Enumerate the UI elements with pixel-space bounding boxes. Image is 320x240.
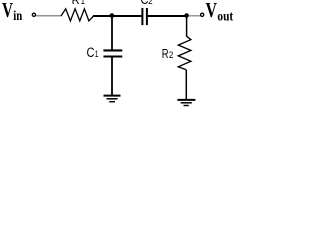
label C1 xyxy=(87,45,99,60)
capacitor C1 xyxy=(103,50,122,56)
wire R2 to ground xyxy=(185,70,187,100)
resistor R1 xyxy=(61,9,94,21)
wire C2 to node B xyxy=(148,15,187,17)
svg-text:C: C xyxy=(87,45,95,60)
svg-text:R: R xyxy=(72,0,80,7)
wire C1 to ground xyxy=(111,58,113,96)
wire R1 to C2 xyxy=(93,15,141,17)
svg-text:in: in xyxy=(13,9,22,24)
wire node B down to R2 xyxy=(186,16,188,37)
svg-text:2: 2 xyxy=(169,50,174,60)
junction node B xyxy=(184,13,189,18)
label R2 xyxy=(162,46,174,61)
wire node B to Vout terminal xyxy=(189,15,201,17)
svg-text:1: 1 xyxy=(81,0,85,6)
resistor R2 xyxy=(178,36,191,70)
svg-text:out: out xyxy=(217,10,233,25)
junction node A xyxy=(110,13,115,18)
terminal circle Vout xyxy=(201,13,204,16)
wire node A down to C1 xyxy=(111,16,113,50)
svg-text:R: R xyxy=(162,46,169,61)
node Vin label xyxy=(2,0,22,24)
wire Vin to R1 xyxy=(36,15,62,17)
node Vout label xyxy=(206,0,234,25)
ground under C1 xyxy=(104,96,121,102)
ground under R2 xyxy=(177,100,195,106)
capacitor C2 xyxy=(142,8,147,25)
terminal circle Vin xyxy=(32,13,35,16)
label C2 (cut off at top) xyxy=(141,0,153,7)
svg-text:2: 2 xyxy=(148,0,153,7)
svg-text:V: V xyxy=(2,0,13,22)
svg-text:V: V xyxy=(206,0,218,22)
label R1 (cut off at top) xyxy=(72,0,85,7)
svg-text:1: 1 xyxy=(95,49,99,60)
